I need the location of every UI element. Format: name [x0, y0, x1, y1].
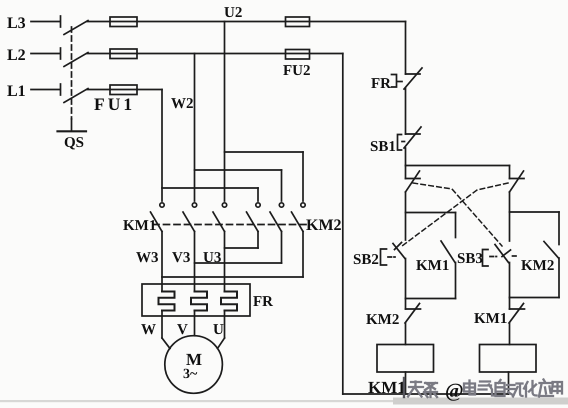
node L3 label [7, 15, 26, 32]
contactor KM1 aux label [416, 258, 449, 274]
svg-text:@: @ [445, 380, 464, 402]
wire right branch to split [509, 192, 511, 241]
fuse FU2 pole bottom [286, 50, 310, 60]
wire L1 to FU1 [87, 89, 110, 91]
contactor KM2 label [306, 217, 342, 234]
svg-text:SB1: SB1 [370, 139, 396, 155]
button SB3 NO contact [483, 245, 518, 267]
relay FR label [253, 294, 273, 310]
wire V lead to motor [194, 311, 196, 336]
wire L2 bus to FU2 and left control rail [137, 53, 343, 55]
relay FR contact label [371, 76, 391, 92]
contactor KM1 label [123, 218, 156, 234]
contactor linkage dashed [153, 224, 309, 226]
wire KM1 pole3 to FR (U3) [224, 232, 226, 292]
node V label [177, 322, 188, 338]
wire W2 drop [161, 90, 163, 202]
fuse FU2 label [283, 63, 311, 79]
wire L3 to FU1 [87, 21, 110, 23]
contactor KM2 main contact pole3 [292, 203, 306, 232]
mechanical interlock dashed SB2 [402, 183, 508, 246]
wire L1 lead-in [31, 89, 60, 91]
switch QS pole L3 blade [64, 21, 88, 35]
svg-text:FR: FR [371, 76, 391, 92]
contactor KM1 auxiliary NO contact [441, 241, 456, 299]
wire KM1 self-hold branch top [406, 213, 456, 238]
relay FR heater element W [159, 292, 175, 311]
svg-text:W3: W3 [136, 250, 159, 266]
svg-text:U2: U2 [224, 5, 242, 21]
wire W lead to motor [162, 311, 170, 349]
wire KM1 pole2 to FR (V3) [194, 232, 196, 292]
contactor KM2 aux label [521, 258, 554, 274]
contactor KM2 main contact pole2 [270, 203, 284, 232]
svg-text:V: V [177, 322, 188, 338]
fuse FU2 pole top [286, 17, 310, 27]
mechanical interlock dashed SB3 [413, 183, 502, 246]
wire L2 lead-in [31, 53, 60, 55]
fuse FU1 pole L1 [110, 85, 137, 95]
contactor KM2 auxiliary NO contact [544, 242, 559, 298]
watermark divider bar [403, 378, 405, 397]
node W3 label [136, 250, 159, 266]
wire left branch to split [405, 192, 407, 240]
fuse FU1 pole L3 [110, 17, 137, 27]
wire SB1 to node [405, 148, 407, 166]
contactor KM1 interlock label [474, 311, 507, 327]
relay FR heater box [142, 284, 250, 316]
svg-text:L2: L2 [7, 47, 26, 64]
switch QS pole L2 fixed contact tick [60, 48, 62, 59]
button SB1 NC contact [398, 127, 422, 150]
wire crossover U2 to KM2 pole3 [225, 152, 304, 201]
control left rail from L2 [342, 54, 344, 395]
wire KM1 coil to bottom rail [405, 372, 407, 394]
node L2 label [7, 47, 26, 64]
svg-text:KM1: KM1 [123, 218, 156, 234]
button SB1 label [370, 139, 396, 155]
switch QS pole L1 fixed contact tick [60, 84, 62, 95]
svg-text:W2: W2 [171, 96, 194, 112]
svg-text:QS: QS [64, 135, 84, 151]
svg-text:SB2: SB2 [353, 252, 379, 268]
svg-text:FU1: FU1 [94, 94, 135, 114]
switch QS linkage dashed [71, 27, 73, 119]
node V3 label [172, 250, 190, 266]
motor M circle [165, 336, 223, 394]
svg-text:W: W [141, 322, 156, 338]
button SB3 label [457, 251, 483, 267]
svg-text:3~: 3~ [183, 367, 198, 382]
motor M label [183, 350, 202, 382]
svg-text:KM1: KM1 [474, 311, 507, 327]
fuse FU1 label [94, 94, 135, 114]
button SB2 NO contact [381, 243, 406, 266]
wire L2 to FU1 [87, 53, 110, 55]
wire U lead to motor [218, 311, 225, 349]
wire crossover V2 to KM2 pole2 [195, 170, 282, 201]
wire right branch rejoin [510, 297, 560, 299]
svg-text:KM1: KM1 [416, 258, 449, 274]
wire to KM1 coil [405, 323, 407, 345]
wire L3 lead-in [31, 21, 60, 23]
relay FR heater element U [221, 292, 237, 311]
wire left branch rejoin [406, 298, 456, 300]
wire to KM2 coil [509, 323, 511, 345]
contactor KM1 main contact pole2 [183, 203, 197, 232]
wire branch top horizontal [406, 165, 510, 167]
contactor KM1 NC interlock contact [509, 298, 525, 324]
svg-text:FR: FR [253, 294, 273, 310]
svg-text:KM2: KM2 [521, 258, 554, 274]
switch QS pole L1 blade [64, 89, 88, 103]
control right rail from L3 [405, 22, 407, 75]
button SB3 NC contact (left branch) [406, 166, 421, 193]
wire SB3 down [509, 263, 511, 298]
wire U2 drop [224, 22, 226, 202]
svg-text:V3: V3 [172, 250, 190, 266]
relay FR heater element V [191, 292, 207, 311]
contactor KM1 main contact pole3 [213, 203, 227, 232]
wire V2 drop [194, 54, 196, 202]
node L1 label [7, 83, 26, 100]
switch QS pole L2 blade [64, 53, 88, 67]
wire bottom rail [343, 393, 509, 395]
coil KM1 label [368, 378, 406, 397]
watermark band [0, 400, 568, 402]
button SB2 NC contact (right branch) [510, 166, 525, 193]
node U2 label [224, 5, 242, 21]
wire KM2 pole2 to V3 [195, 232, 282, 264]
wire L1 to W2 corner [137, 89, 162, 91]
svg-text:SB3: SB3 [457, 251, 483, 267]
svg-text:FU2: FU2 [283, 63, 311, 79]
node W2 label [171, 96, 194, 112]
wire L3 bus to FU2 and right rail [137, 21, 406, 23]
svg-text:KM2: KM2 [366, 312, 399, 328]
coil KM1 [377, 345, 434, 373]
watermark text [408, 382, 437, 398]
button SB2 label [353, 252, 379, 268]
svg-text:KM2: KM2 [306, 217, 342, 234]
svg-text:U: U [213, 322, 224, 338]
switch QS handle bar [58, 119, 87, 131]
node U3 label [203, 250, 221, 266]
wire KM1 pole1 to FR (W3) [161, 232, 163, 292]
relay FR NC contact [392, 68, 423, 89]
contactor KM1 main contact pole1 [151, 203, 165, 232]
wire FR to SB1 [405, 88, 407, 134]
wire SB2 down [405, 259, 407, 299]
wire KM2 self-hold branch top [510, 212, 560, 245]
svg-text:L1: L1 [7, 83, 26, 100]
switch QS label [64, 135, 84, 151]
fuse FU1 pole L2 [110, 49, 137, 59]
contactor KM2 NC interlock contact [405, 299, 421, 324]
node W label [141, 322, 156, 338]
svg-text:U3: U3 [203, 250, 221, 266]
node U label [213, 322, 224, 338]
switch QS pole L3 fixed contact tick [60, 16, 62, 27]
contactor KM2 interlock label [366, 312, 399, 328]
coil KM2 [480, 345, 537, 373]
wire crossover W2 to KM2 pole1 [162, 188, 258, 201]
wire KM2 coil to bottom rail [508, 372, 510, 394]
wire KM2 pole1 to U3 [225, 232, 259, 249]
svg-text:L3: L3 [7, 15, 26, 32]
wire KM2 pole3 to W3 [162, 232, 303, 278]
contactor KM2 main contact pole1 [247, 203, 261, 232]
